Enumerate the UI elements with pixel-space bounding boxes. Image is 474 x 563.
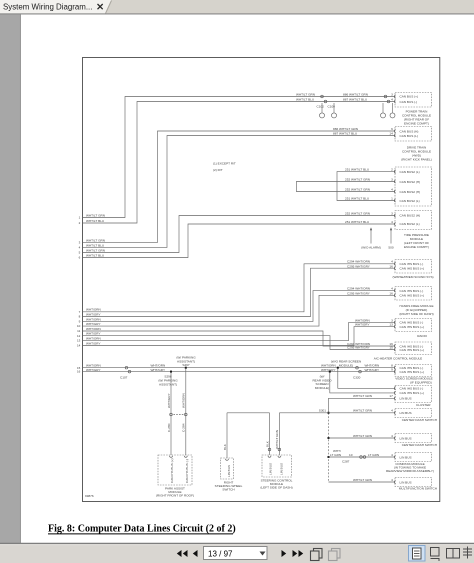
wire 16 WHT/GRY to video screen module	[77, 368, 395, 374]
radio U7	[394, 319, 431, 338]
svg-text:(RIGHT KICK PANEL): (RIGHT KICK PANEL)	[401, 157, 431, 161]
wire LIN bus from cluster	[329, 394, 396, 413]
svg-text:C-280: C-280	[167, 423, 171, 432]
svg-text:887 WHT/LT BLU: 887 WHT/LT BLU	[333, 132, 357, 136]
svg-text:ENGINE COMPT): ENGINE COMPT)	[404, 121, 429, 125]
svg-text:WHT/ORN: WHT/ORN	[86, 337, 101, 341]
wire 8 WHT/GRY to module CAN IHS +	[79, 264, 395, 318]
svg-text:886 WHT/LT GRN: 886 WHT/LT GRN	[333, 127, 358, 131]
svg-text:251 WHT/LT BLU: 251 WHT/LT BLU	[345, 220, 369, 224]
svg-text:WHT/LT GRN: WHT/LT GRN	[296, 92, 315, 96]
right steering wheel switch	[215, 458, 243, 492]
toolbar previous page button	[193, 550, 198, 557]
tab close button	[98, 4, 103, 9]
bottom toolbar	[0, 543, 474, 563]
svg-text:(W/RSE/PREM SOUND SYS): (W/RSE/PREM SOUND SYS)	[392, 275, 433, 279]
svg-text:CAN IHS BUS (+): CAN IHS BUS (+)	[400, 325, 425, 329]
LIN junction 3	[328, 456, 330, 458]
svg-text:CAN BUS2 (L): CAN BUS2 (L)	[400, 170, 420, 174]
svg-text:WHT/GRY: WHT/GRY	[86, 341, 101, 345]
svg-text:LIN BUS: LIN BUS	[279, 463, 283, 475]
svg-text:WHT/ORN: WHT/ORN	[182, 393, 186, 408]
svg-text:CENTER DASH SWITCH: CENTER DASH SWITCH	[402, 443, 437, 447]
svg-text:10: 10	[77, 324, 81, 328]
wire 5 WHT/LT GRN to tire pressure module CAN H	[79, 211, 395, 254]
wire 11 WHT/ORN to climate control	[77, 327, 395, 346]
wire drop to steering control module pin 1	[265, 413, 271, 455]
svg-text:CAN BUS (H): CAN BUS (H)	[400, 129, 419, 133]
svg-text:(RIGHT FRONT OF ROOF): (RIGHT FRONT OF ROOF)	[156, 494, 194, 498]
hands free module U6	[394, 287, 433, 317]
svg-text:9: 9	[391, 368, 393, 372]
svg-text:C295 WHT/GRY: C295 WHT/GRY	[347, 346, 370, 350]
svg-text:CAN BUS (+): CAN BUS (+)	[400, 95, 418, 99]
junction to cluster CAN plus	[329, 371, 395, 393]
wire 13 WHT/ORN to radio	[77, 318, 395, 342]
wire bridge to steering modules	[227, 412, 270, 414]
wire drop WHT/ORN to park assist module	[182, 369, 188, 455]
svg-text:S297: S297	[182, 363, 190, 367]
svg-text:WHT/LT GRN: WHT/LT GRN	[86, 238, 105, 242]
svg-text:10: 10	[349, 453, 353, 457]
svg-text:CAN BUS2 (L): CAN BUS2 (L)	[400, 222, 420, 226]
svg-text:C320: C320	[353, 375, 361, 379]
option arrow 500	[388, 227, 393, 249]
wire 9 WHT/ORN to hands free module	[79, 287, 395, 324]
svg-text:C287: C287	[342, 460, 350, 464]
svg-text:REARVIEW MIRROR ASSEMBLY): REARVIEW MIRROR ASSEMBLY)	[386, 469, 434, 473]
video screen module U9	[394, 365, 432, 385]
svg-text:LIN BUS: LIN BUS	[400, 455, 412, 459]
svg-text:(2) R/T: (2) R/T	[213, 168, 223, 172]
svg-text:CAN BUS2 (H): CAN BUS2 (H)	[400, 190, 421, 194]
schematic frame	[83, 58, 440, 502]
svg-text:12: 12	[77, 334, 81, 338]
tab bar bottom separator	[0, 13, 474, 15]
svg-text:CAN BUS2 (H): CAN BUS2 (H)	[400, 214, 421, 218]
svg-text:SWITCH: SWITCH	[222, 488, 234, 492]
splice S298 note	[158, 374, 178, 386]
svg-text:3: 3	[391, 177, 393, 181]
svg-text:CAN BUS2 (H): CAN BUS2 (H)	[400, 180, 421, 184]
wire LIN to center dash switch 1	[329, 409, 396, 413]
svg-text:CAN IHS BUS (-): CAN IHS BUS (-)	[400, 289, 424, 293]
climate control module U8	[374, 342, 432, 361]
svg-text:WHT/GRY: WHT/GRY	[365, 368, 380, 372]
toolbar first page button	[177, 550, 188, 557]
cluster U10	[394, 386, 431, 408]
svg-text:15: 15	[389, 346, 393, 350]
svg-text:WHT/GRY: WHT/GRY	[167, 393, 171, 408]
wire loop CAN BUS2 inner rows B-C	[296, 177, 395, 191]
toolbar previous view icon	[311, 549, 323, 561]
svg-text:887 WHT/LT BLU: 887 WHT/LT BLU	[343, 98, 367, 102]
svg-text:WHT/LT BLU: WHT/LT BLU	[86, 243, 104, 247]
splice S297 note	[176, 356, 196, 368]
center dash switch 2	[394, 434, 437, 448]
wire 12 WHT/GRY to climate control	[77, 332, 395, 350]
svg-text:MODULE): MODULE)	[339, 363, 353, 367]
svg-text:CLUSTER: CLUSTER	[416, 403, 431, 407]
note W/ rear video screen module	[312, 375, 332, 390]
svg-text:WHT/LT GRN: WHT/LT GRN	[275, 430, 279, 449]
svg-text:CAN IHS BUS (+): CAN IHS BUS (+)	[170, 459, 174, 484]
svg-text:13: 13	[389, 323, 393, 327]
svg-text:3: 3	[391, 92, 393, 96]
svg-text:252 WHT/LT GRN: 252 WHT/LT GRN	[345, 187, 370, 191]
satellite audio module U5	[392, 260, 433, 279]
drivetrain control module U2	[394, 127, 431, 162]
svg-text:99876: 99876	[85, 494, 94, 498]
toolbar next view icon (disabled)	[329, 549, 341, 561]
svg-text:BLK: BLK	[265, 440, 269, 447]
svg-text:16: 16	[389, 291, 393, 295]
svg-text:CAN IHS BUS (-): CAN IHS BUS (-)	[400, 262, 424, 266]
connector C100 on wires 1-2 near PCM	[384, 95, 390, 103]
steering control module	[260, 455, 292, 490]
svg-text:LIN BUS: LIN BUS	[400, 480, 412, 484]
wire LIN to multifunction switch	[329, 478, 396, 482]
svg-text:CAN BUS2 (L): CAN BUS2 (L)	[400, 199, 420, 203]
center dash switch 1	[394, 409, 437, 422]
splice S301	[319, 409, 330, 414]
svg-text:WHT/ORN: WHT/ORN	[86, 317, 101, 321]
svg-text:886 WHT/LT GRN: 886 WHT/LT GRN	[343, 92, 368, 96]
wire 6 WHT/LT BLU to tire pressure module CAN L	[79, 220, 395, 260]
svg-text:CAN IHS BUS (+): CAN IHS BUS (+)	[400, 294, 425, 298]
svg-text:LIN BUS: LIN BUS	[400, 411, 412, 415]
powertrain control module U1	[394, 93, 431, 126]
svg-text:CAN IHS BUS (+): CAN IHS BUS (+)	[400, 370, 425, 374]
tire pressure module U4	[394, 211, 431, 249]
wire LIN segment to steering control module	[279, 412, 328, 414]
svg-text:(LEFT SIDE OF DASH): (LEFT SIDE OF DASH)	[260, 486, 292, 490]
park assist module	[156, 455, 194, 498]
svg-text:CENTER DASH SWITCH: CENTER DASH SWITCH	[402, 418, 437, 422]
svg-text:BLK: BLK	[223, 443, 227, 450]
svg-text:A/C-HEATER CONTROL MODULE: A/C-HEATER CONTROL MODULE	[374, 357, 422, 361]
pdf tab bar	[0, 0, 474, 13]
legend note	[213, 161, 236, 172]
svg-text:1: 1	[391, 196, 393, 200]
svg-text:System Wiring Diagram...: System Wiring Diagram...	[3, 2, 92, 11]
splice S297 junction	[185, 367, 187, 369]
svg-text:(1) EXCEPT R/T: (1) EXCEPT R/T	[213, 161, 236, 165]
svg-text:252 WHT/LT GRN: 252 WHT/LT GRN	[345, 177, 370, 181]
wire drop to right steering wheel switch	[223, 413, 227, 458]
svg-text:WHT/LT GRN: WHT/LT GRN	[353, 409, 372, 413]
figure caption	[48, 524, 236, 535]
svg-text:WHT/GRY: WHT/GRY	[86, 312, 101, 316]
toolbar two page continuous mode button	[463, 547, 472, 559]
svg-text:WHT/GRY: WHT/GRY	[86, 332, 101, 336]
svg-text:WHT/GRY: WHT/GRY	[151, 368, 166, 372]
svg-text:(RIGHT SIDE OF DASH): (RIGHT SIDE OF DASH)	[399, 312, 433, 316]
toolbar next page button	[282, 550, 287, 557]
svg-text:WHT/GRY: WHT/GRY	[355, 323, 370, 327]
svg-text:4: 4	[391, 478, 393, 482]
wire 7 WHT/ORN to module CAN IHS -	[79, 260, 395, 314]
LIN junction 2	[328, 437, 330, 439]
svg-text:4: 4	[391, 260, 393, 264]
wire 2 WHT/LT BLU to PCM CAN-	[79, 98, 395, 226]
note W/O rear screen module	[331, 360, 361, 368]
svg-text:13: 13	[77, 339, 81, 343]
svg-text:LIN BUS: LIN BUS	[227, 465, 231, 477]
compass module	[386, 453, 434, 474]
svg-text:4: 4	[391, 220, 393, 224]
svg-text:WHT/LT BLU: WHT/LT BLU	[86, 219, 104, 223]
svg-text:WHT/GRY: WHT/GRY	[321, 368, 336, 372]
svg-text:LT GRN: LT GRN	[330, 453, 341, 457]
svg-text:4: 4	[391, 98, 393, 102]
svg-text:WHT/LT GRN: WHT/LT GRN	[86, 213, 105, 217]
wire 14 WHT/GRY to radio	[77, 323, 395, 348]
svg-text:14: 14	[389, 132, 393, 136]
wire LIN to center dash switch 2	[329, 434, 396, 438]
wire 4 WHT/LT BLU to DTCM CAN L	[79, 132, 395, 250]
svg-text:C102: C102	[317, 105, 325, 109]
svg-text:WHT/LT GRN: WHT/LT GRN	[353, 478, 372, 482]
svg-text:252 WHT/LT GRN: 252 WHT/LT GRN	[345, 211, 370, 215]
svg-text:(W/O ALARM): (W/O ALARM)	[361, 245, 381, 249]
svg-text:WHT/LT GRN: WHT/LT GRN	[353, 434, 372, 438]
svg-text:ASSISTANT): ASSISTANT)	[159, 382, 177, 386]
connector C320 on wires 15-16	[353, 366, 361, 379]
wire drop WHT/GRY to park assist module	[167, 373, 184, 455]
wire loop CAN BUS2 outer rows A-D	[337, 168, 395, 201]
svg-text:Fig. 8: Computer Data Lines Ci: Fig. 8: Computer Data Lines Circuit (2 o…	[48, 524, 236, 535]
anti-lock brake module U3	[394, 167, 431, 206]
svg-text:2: 2	[391, 168, 393, 172]
svg-text:LIN BUS: LIN BUS	[400, 397, 412, 401]
svg-text:16: 16	[389, 264, 393, 268]
svg-text:CAN IHS BUS (-): CAN IHS BUS (-)	[400, 387, 424, 391]
svg-text:C295 WHT/GRY: C295 WHT/GRY	[347, 264, 370, 268]
toolbar continuous page mode button	[431, 548, 440, 562]
svg-text:WHT/LT GRN: WHT/LT GRN	[86, 248, 105, 252]
toolbar page number field	[204, 547, 268, 560]
connector C102 on wires 1-2	[317, 95, 336, 108]
svg-text:WHT/LT GRN: WHT/LT GRN	[353, 394, 372, 398]
splice S298 junction	[170, 371, 172, 373]
svg-text:C107: C107	[120, 375, 128, 379]
svg-text:RADIO: RADIO	[417, 334, 427, 338]
svg-text:WHT/LT BLU: WHT/LT BLU	[86, 253, 104, 257]
wire drop to steering control module pin 2	[275, 413, 281, 455]
svg-text:CAN IHS BUS (-): CAN IHS BUS (-)	[185, 459, 189, 483]
svg-text:4: 4	[391, 434, 393, 438]
wire LIN to compass module	[329, 449, 396, 464]
junction to cluster CAN minus	[337, 367, 395, 389]
option arrow W/O ALARM	[361, 227, 381, 249]
svg-text:16: 16	[77, 370, 81, 374]
toolbar last page button	[293, 550, 304, 557]
svg-text:(IF EQUIPPED): (IF EQUIPPED)	[410, 380, 432, 384]
svg-text:WHT/LT BLU: WHT/LT BLU	[296, 98, 314, 102]
svg-text:C-284: C-284	[182, 423, 186, 432]
multifunction switch	[394, 478, 437, 491]
connector C107 on wires 15-16	[120, 366, 131, 379]
svg-text:WHT/ORN: WHT/ORN	[86, 327, 101, 331]
svg-text:500: 500	[388, 245, 393, 249]
svg-text:4: 4	[391, 287, 393, 291]
svg-text:17: 17	[389, 394, 393, 398]
svg-text:C294 WHT/ORN: C294 WHT/ORN	[347, 260, 370, 264]
svg-text:MODULE): MODULE)	[315, 386, 329, 390]
svg-text:WHT/GRY: WHT/GRY	[86, 368, 101, 372]
svg-text:MULTIFUNCTION SWITCH: MULTIFUNCTION SWITCH	[399, 487, 437, 491]
svg-text:CAN IHS BUS (+): CAN IHS BUS (+)	[400, 348, 425, 352]
svg-text:11: 11	[77, 329, 80, 333]
svg-text:4: 4	[391, 187, 393, 191]
svg-text:251 WHT/LT BLU: 251 WHT/LT BLU	[345, 196, 369, 200]
svg-text:4: 4	[391, 453, 393, 457]
svg-text:3: 3	[391, 211, 393, 215]
svg-text:C294 WHT/ORN: C294 WHT/ORN	[347, 287, 370, 291]
wire 15 WHT/ORN to video screen module	[77, 364, 395, 370]
ground reference bubbles under wires 1-2	[320, 103, 396, 118]
LIN bus vertical run	[328, 413, 330, 482]
toolbar single page mode button (selected)	[409, 546, 426, 562]
wire 1 WHT/LT GRN to PCM CAN+	[79, 92, 395, 219]
wire 3 WHT/LT GRN to DTCM CAN H	[79, 127, 395, 245]
svg-text:CAN IHS BUS (+): CAN IHS BUS (+)	[400, 267, 425, 271]
svg-text:CAN IHS BUS (+): CAN IHS BUS (+)	[400, 391, 425, 395]
toolbar two page mode button	[447, 549, 460, 559]
svg-text:CAN BUS (L): CAN BUS (L)	[400, 134, 418, 138]
svg-text:CAN BUS (-): CAN BUS (-)	[400, 100, 418, 104]
svg-text:WHT/GRY: WHT/GRY	[86, 322, 101, 326]
svg-text:14: 14	[77, 344, 81, 348]
svg-text:C295 WHT/GRY: C295 WHT/GRY	[347, 291, 370, 295]
svg-text:4: 4	[391, 409, 393, 413]
wire 10 WHT/GRY to hands free module	[77, 291, 395, 328]
svg-text:S301: S301	[319, 409, 327, 413]
svg-text:ENGINE COMPT): ENGINE COMPT)	[404, 245, 429, 249]
svg-text:WHT/ORN: WHT/ORN	[86, 308, 101, 312]
svg-text:13 / 97: 13 / 97	[208, 550, 233, 559]
svg-text:6: 6	[391, 127, 393, 131]
svg-text:LIN BUS: LIN BUS	[400, 436, 412, 440]
svg-text:LIN BUS: LIN BUS	[269, 463, 273, 475]
svg-text:251 WHT/LT BLU: 251 WHT/LT BLU	[345, 168, 369, 172]
svg-text:LT GRN: LT GRN	[368, 453, 379, 457]
